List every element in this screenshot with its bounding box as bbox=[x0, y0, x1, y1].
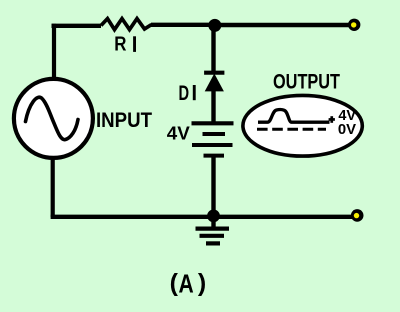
svg-text:(: ( bbox=[170, 269, 179, 297]
node: top junction dot bbox=[208, 19, 221, 32]
label + of +4V bbox=[329, 118, 335, 121]
svg-text:A: A bbox=[179, 269, 194, 299]
ground bar 3 bbox=[206, 241, 220, 245]
svg-text:4V: 4V bbox=[167, 124, 190, 144]
battery plate short 2 bbox=[204, 154, 225, 158]
AC source sine symbol bbox=[26, 97, 79, 139]
ground stub bbox=[211, 219, 215, 227]
waveform 0V dashed line bbox=[257, 128, 326, 131]
waveform solid line with pulse bump bbox=[258, 110, 330, 123]
svg-text:OUTPUT: OUTPUT bbox=[273, 71, 340, 94]
svg-text:D: D bbox=[179, 82, 190, 105]
wire: left vertical top (corner to source) bbox=[52, 24, 56, 80]
diode D1 triangle (anode, pointing up) bbox=[205, 74, 224, 92]
wire: bottom horizontal bbox=[51, 215, 352, 219]
wire: diode to battery bbox=[211, 88, 215, 122]
svg-text:0V: 0V bbox=[338, 122, 357, 138]
svg-text:INPUT: INPUT bbox=[96, 109, 152, 132]
node: bottom junction dot bbox=[207, 210, 220, 223]
resistor R1 label "1" bar bbox=[133, 36, 136, 52]
battery plate long 2 bbox=[192, 143, 233, 147]
wire: left vertical bottom (source to bottom wire) bbox=[51, 157, 55, 217]
resistor R1 zigzag bbox=[101, 19, 152, 30]
diode D1 cathode bar bbox=[204, 71, 224, 75]
svg-text:): ) bbox=[198, 269, 206, 297]
terminal: bottom-right output terminal bbox=[351, 209, 364, 222]
label D1 "1" bar bbox=[193, 85, 196, 100]
wire: middle vertical from top junction to diode bbox=[211, 28, 215, 71]
terminal: top-right output terminal bbox=[348, 19, 360, 31]
ground bar 2 bbox=[200, 234, 225, 238]
AC source circle bbox=[14, 79, 93, 158]
wire: top-left horizontal from source corner to R1 bbox=[52, 24, 102, 28]
wire: battery to bottom junction bbox=[211, 157, 215, 212]
ground bar 1 bbox=[196, 227, 230, 231]
svg-text:R: R bbox=[114, 33, 127, 55]
battery plate short 1 bbox=[203, 132, 226, 136]
wire: top middle from R1 to junction bbox=[151, 23, 211, 27]
wire: top-right from junction to terminal bbox=[215, 23, 349, 27]
output scope oval bbox=[243, 95, 362, 156]
battery plate long 1 bbox=[192, 121, 234, 125]
